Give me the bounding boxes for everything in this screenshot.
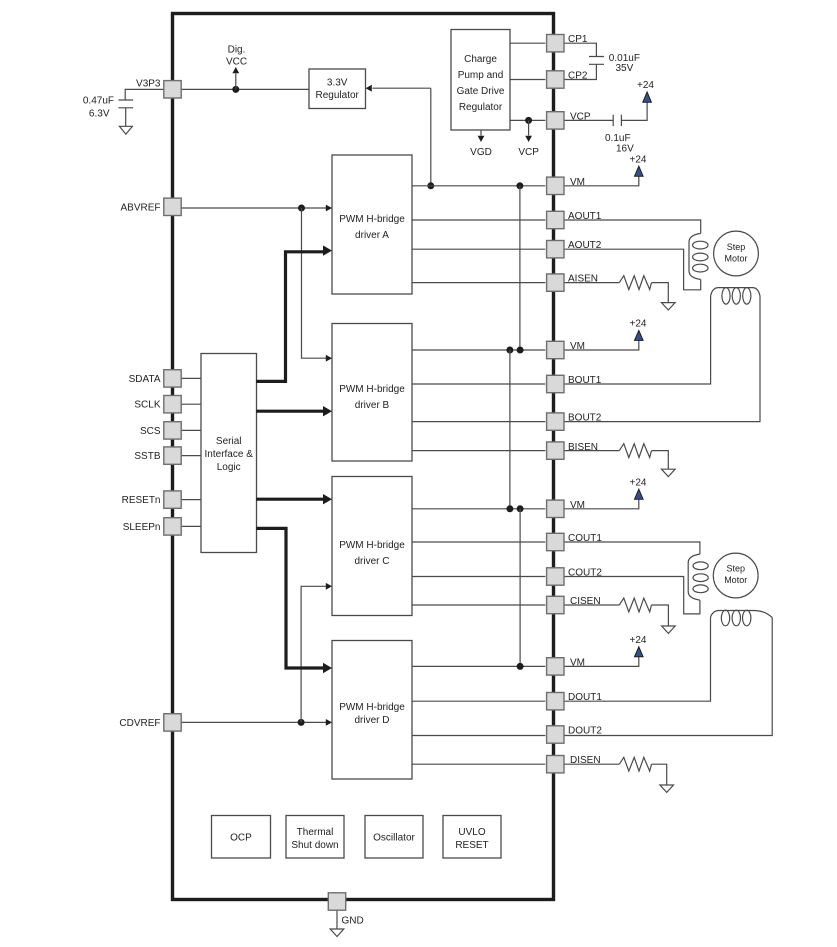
pin BOUT1: [547, 375, 602, 393]
svg-text:16V: 16V: [616, 144, 634, 155]
step motor 2: [713, 553, 758, 598]
svg-text:VCP: VCP: [570, 111, 591, 122]
thermal shutdown block: [286, 816, 344, 859]
node VM D bus junction: [517, 663, 524, 670]
node ABVREF junction: [298, 205, 305, 212]
svg-text:Shut down: Shut down: [291, 840, 338, 851]
wire VM B rail: [412, 349, 545, 351]
wire serial bus to driver A (thick): [256, 245, 332, 381]
capacitor C2 0.01uF: [589, 53, 640, 74]
svg-text:+24: +24: [630, 635, 647, 646]
svg-text:AOUT2: AOUT2: [568, 240, 602, 251]
pin CP2: [547, 71, 588, 89]
supply +24 at VCP: [637, 80, 654, 102]
svg-text:COUT2: COUT2: [568, 568, 602, 579]
wire flying capacitor to CP2: [563, 64, 597, 79]
pin COUT2: [547, 568, 603, 586]
pin SCLK: [134, 396, 181, 413]
wire resistor to ground: [652, 605, 669, 626]
step motor 1: [714, 231, 759, 276]
supply +24 at VM A: [630, 154, 647, 176]
resistor R-AISEN: [619, 276, 651, 290]
wire SSTB stub: [181, 455, 201, 457]
pin VM C: [547, 500, 585, 518]
svg-text:Interface &: Interface &: [205, 449, 254, 460]
svg-text:BOUT2: BOUT2: [568, 413, 602, 424]
svg-text:ABVREF: ABVREF: [120, 202, 160, 213]
pin CDVREF: [119, 714, 181, 731]
inductor coil B: [711, 288, 760, 304]
svg-text:Oscillator: Oscillator: [373, 833, 415, 844]
wire CDVREF to driver C: [301, 583, 332, 723]
svg-text:Regulator: Regulator: [316, 90, 360, 101]
resistor R-DISEN: [619, 757, 651, 771]
supply +24 at VM B: [630, 319, 647, 341]
wire COUT1 to coil C: [564, 542, 700, 554]
wire CDVREF to driver D: [181, 719, 332, 726]
wire charge pump to VCP: [510, 119, 545, 121]
PWM H-bridge driver D block: [332, 641, 412, 780]
svg-text:driver A: driver A: [355, 230, 389, 241]
svg-text:AISEN: AISEN: [568, 274, 598, 285]
wire driver A to AOUT2: [412, 248, 545, 250]
wire ABVREF to driver B: [302, 208, 333, 362]
wire SCLK stub: [181, 403, 201, 405]
svg-text:DOUT2: DOUT2: [568, 726, 602, 737]
pin BOUT2: [547, 413, 602, 431]
pin DOUT2: [547, 726, 603, 744]
pin SCS: [140, 422, 181, 439]
svg-text:VCP: VCP: [518, 147, 539, 158]
wire C3 to +24 supply: [621, 102, 647, 120]
ground at DISEN: [660, 785, 674, 792]
pin VCP: [547, 111, 591, 129]
node CDVREF junction: [298, 719, 305, 726]
svg-text:COUT1: COUT1: [568, 533, 602, 544]
svg-text:RESET: RESET: [455, 840, 488, 851]
wire VM B to +24: [564, 340, 639, 350]
svg-text:Motor: Motor: [724, 254, 747, 264]
charge pump and gate drive regulator block: [451, 30, 510, 131]
svg-text:35V: 35V: [616, 63, 634, 74]
svg-text:GND: GND: [342, 916, 364, 927]
wire charge pump to CP1: [510, 42, 545, 44]
node VM A bus junction: [516, 182, 523, 189]
capacitor C1 0.47uF: [83, 95, 133, 119]
svg-text:+24: +24: [630, 319, 647, 330]
wire VM A to +24: [564, 176, 639, 186]
wire RESETn stub: [181, 499, 201, 501]
svg-text:Motor: Motor: [724, 575, 747, 585]
wire VM bus segment B-C: [509, 350, 511, 509]
pin SLEEPn: [123, 518, 182, 535]
inductor coil D: [711, 610, 773, 626]
svg-text:CP1: CP1: [568, 34, 588, 45]
svg-text:Step: Step: [727, 242, 746, 252]
wire internal VGD arrow: [470, 130, 492, 158]
wire SCS stub: [181, 429, 201, 431]
svg-text:Dig.: Dig.: [228, 45, 246, 56]
wire driver D to DOUT1: [412, 700, 545, 702]
wire driver D to DOUT2: [412, 735, 545, 737]
PWM H-bridge driver B block: [332, 324, 412, 462]
pin CP1: [547, 34, 588, 52]
wire AISEN to resistor: [564, 282, 619, 284]
svg-text:+24: +24: [630, 477, 647, 488]
wire V3P3 to external capacitor: [125, 89, 164, 100]
svg-text:Step: Step: [726, 564, 745, 574]
pin VM D: [547, 657, 585, 675]
svg-text:VM: VM: [570, 341, 585, 352]
oscillator block: [365, 816, 423, 859]
wire Dig. VCC arrow up: [226, 45, 247, 90]
svg-text:Gate Drive: Gate Drive: [457, 86, 505, 97]
wire COUT2 to coil C: [564, 577, 700, 614]
svg-text:SDATA: SDATA: [129, 374, 161, 385]
svg-text:DISEN: DISEN: [570, 755, 601, 766]
wire VM bus segment A-B: [519, 186, 521, 350]
svg-text:Serial: Serial: [216, 436, 242, 447]
svg-text:PWM H-bridge: PWM H-bridge: [339, 214, 405, 225]
pin VM B: [547, 341, 585, 359]
wire serial bus to driver B (thick): [256, 406, 332, 416]
resistor R-CISEN: [619, 598, 651, 612]
wire driver C to CISEN: [412, 604, 545, 606]
pin BISEN: [547, 442, 598, 459]
svg-text:Regulator: Regulator: [459, 102, 503, 113]
OCP block: [212, 816, 271, 859]
ground at AISEN: [662, 303, 676, 310]
svg-text:driver D: driver D: [354, 715, 389, 726]
node VM B bus junctions: [506, 347, 523, 354]
wire ABVREF to driver A: [181, 205, 332, 212]
svg-text:UVLO: UVLO: [458, 827, 485, 838]
wire SDATA stub: [181, 377, 201, 379]
wire DOUT2 to coil D: [564, 618, 772, 736]
wire VCP to capacitor C3: [564, 119, 613, 121]
svg-text:VM: VM: [570, 500, 585, 511]
svg-text:VM: VM: [570, 657, 585, 668]
svg-text:VM: VM: [570, 177, 585, 188]
wire CP1 to flying capacitor: [564, 43, 596, 56]
svg-text:+24: +24: [630, 154, 647, 165]
svg-text:0.1uF: 0.1uF: [605, 133, 631, 144]
ground below C1: [119, 108, 132, 134]
svg-text:SCS: SCS: [140, 426, 161, 437]
wire driver A to AISEN: [412, 282, 545, 284]
wire driver B to BISEN: [412, 450, 545, 452]
svg-text:6.3V: 6.3V: [89, 109, 110, 120]
wire VM C to +24: [564, 499, 639, 509]
wire driver C to COUT2: [412, 576, 545, 578]
supply +24 at VM D: [630, 635, 647, 657]
wire VM C rail: [412, 508, 545, 510]
svg-text:BOUT1: BOUT1: [568, 375, 602, 386]
wire driver C to COUT1: [412, 541, 545, 543]
serial interface and logic block: [201, 354, 257, 553]
wire DOUT1 to coil D: [564, 618, 711, 702]
pin SSTB: [134, 447, 181, 464]
resistor R-BISEN: [619, 444, 651, 458]
PWM H-bridge driver C block: [332, 477, 412, 616]
svg-text:Pump and: Pump and: [458, 70, 504, 81]
ground at CISEN: [662, 626, 676, 633]
svg-text:VGD: VGD: [470, 147, 492, 158]
wire CISEN to resistor: [564, 604, 619, 606]
node VM supply junction: [427, 182, 434, 189]
wire V3P3 to 3.3V regulator: [181, 88, 309, 90]
svg-text:driver B: driver B: [355, 400, 390, 411]
wire VM A rail: [412, 185, 545, 187]
wire DISEN to resistor: [564, 763, 619, 765]
svg-text:SSTB: SSTB: [134, 451, 160, 462]
wire driver B to BOUT1: [412, 383, 545, 385]
wire BISEN to resistor: [564, 450, 619, 452]
wire serial bus to driver C (thick): [256, 494, 332, 504]
wire BOUT1 to coil B: [564, 296, 711, 384]
ground at BISEN: [662, 469, 676, 476]
pin GND: [328, 893, 345, 910]
pin AOUT1: [547, 211, 602, 229]
wire charge pump to CP2: [510, 79, 545, 81]
ground at GND pin: [330, 929, 344, 937]
supply +24 at VM C: [630, 477, 647, 499]
svg-text:driver C: driver C: [354, 556, 389, 567]
svg-text:3.3V: 3.3V: [327, 78, 348, 89]
pin RESETn: [122, 491, 182, 508]
inductor coil A: [689, 233, 708, 279]
wire resistor to ground: [652, 451, 669, 470]
inductor coil C: [688, 554, 708, 600]
svg-text:AOUT1: AOUT1: [568, 211, 602, 222]
wire serial bus to driver D (thick): [256, 528, 332, 673]
wire BOUT2 to coil B: [564, 296, 760, 422]
svg-text:SCLK: SCLK: [134, 400, 160, 411]
svg-text:V3P3: V3P3: [136, 79, 161, 90]
svg-text:OCP: OCP: [230, 833, 252, 844]
capacitor C3 0.1uF: [605, 115, 634, 155]
svg-text:PWM H-bridge: PWM H-bridge: [339, 702, 405, 713]
wire internal VCP arrow: [518, 120, 539, 158]
svg-text:+24: +24: [637, 80, 654, 91]
pin V3P3: [136, 79, 181, 99]
pin AISEN: [547, 274, 598, 292]
pin ABVREF: [120, 198, 181, 215]
wire VM supply into 3.3V regulator: [366, 85, 431, 186]
3.3V regulator block: [309, 69, 366, 109]
svg-text:PWM H-bridge: PWM H-bridge: [339, 384, 405, 395]
svg-text:SLEEPn: SLEEPn: [123, 522, 161, 533]
pin DOUT1: [547, 692, 603, 710]
svg-text:VCC: VCC: [226, 57, 247, 68]
wire resistor to ground: [652, 283, 669, 303]
svg-text:DOUT1: DOUT1: [568, 692, 602, 703]
pin COUT1: [547, 533, 603, 551]
svg-text:PWM H-bridge: PWM H-bridge: [339, 540, 405, 551]
svg-text:CDVREF: CDVREF: [119, 718, 160, 729]
UVLO reset block: [443, 816, 501, 859]
pin DISEN: [547, 755, 601, 773]
wire driver B to BOUT2: [412, 421, 545, 423]
wire GND pin to ground: [336, 910, 338, 929]
wire AOUT1 to coil A: [564, 220, 701, 233]
svg-text:CP2: CP2: [568, 71, 588, 82]
node Dig. VCC junction: [232, 86, 239, 93]
node VM C bus junctions: [506, 505, 523, 512]
pin VM A: [547, 177, 585, 195]
pin CISEN: [547, 596, 601, 614]
wire driver D to DISEN: [412, 763, 545, 765]
svg-text:Thermal: Thermal: [297, 827, 334, 838]
wire VM D rail: [412, 665, 545, 667]
svg-text:Logic: Logic: [217, 462, 241, 473]
pin AOUT2: [547, 240, 602, 258]
wire VM bus segment C-D: [519, 509, 521, 667]
svg-text:0.47uF: 0.47uF: [83, 95, 114, 106]
wire SLEEPn stub: [181, 525, 201, 527]
pin SDATA: [129, 370, 182, 387]
svg-text:CISEN: CISEN: [570, 596, 601, 607]
IC boundary: [173, 14, 554, 900]
svg-text:RESETn: RESETn: [122, 495, 161, 506]
svg-text:Charge: Charge: [464, 54, 497, 65]
wire resistor to ground: [652, 764, 667, 785]
wire AOUT2 to coil A: [564, 249, 701, 290]
wire driver A to AOUT1: [412, 219, 545, 221]
PWM H-bridge driver A block: [332, 155, 412, 294]
wire VM D to +24: [564, 657, 639, 667]
svg-text:BISEN: BISEN: [568, 442, 598, 453]
node VCP junction: [525, 117, 532, 124]
